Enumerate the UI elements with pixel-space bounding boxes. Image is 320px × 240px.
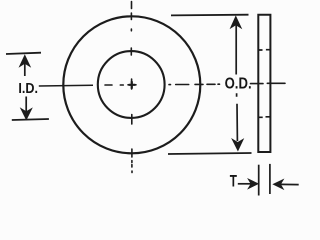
- T extension line right: [269, 164, 271, 194]
- O.D. up arrow: [232, 17, 241, 74]
- T extension line left: [258, 165, 260, 196]
- O.D. down arrow: [233, 93, 242, 149]
- svg-text:T: T: [230, 172, 237, 190]
- horizontal centerline: [105, 83, 285, 85]
- center mark +: [129, 81, 136, 88]
- svg-text:I.D.: I.D.: [18, 81, 38, 97]
- O.D. top extension line: [171, 14, 249, 17]
- side view hidden line (hole bottom): [259, 116, 271, 119]
- inner circle (washer hole, front view): [98, 51, 165, 118]
- I.D. down arrow: [22, 97, 31, 119]
- outer circle (washer O.D., front view): [63, 16, 200, 153]
- I.D. bottom extension bar: [12, 119, 49, 120]
- vertical centerline: [130, 2, 133, 173]
- T left arrow: [238, 180, 257, 188]
- I.D. leader line: [39, 84, 93, 87]
- svg-text:O.D.: O.D.: [225, 76, 252, 93]
- O.D. bottom extension line: [168, 153, 252, 154]
- T right arrow: [274, 181, 298, 189]
- side view rectangle (washer edge): [258, 15, 270, 152]
- side view hidden line (hole top): [259, 49, 271, 51]
- I.D. up arrow: [21, 56, 30, 76]
- I.D. top extension bar: [6, 53, 41, 54]
